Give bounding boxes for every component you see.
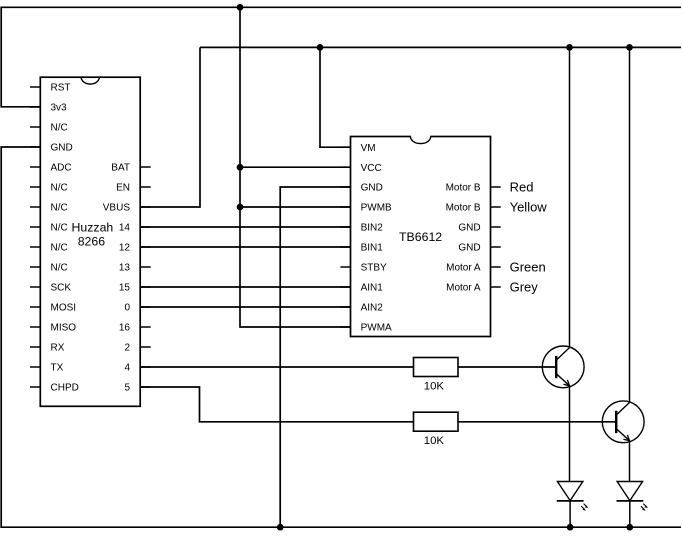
wire: R1 to Q1 base [458, 366, 556, 368]
wire: branch to U2 VCC pin [240, 166, 351, 168]
U2 top notch [411, 135, 430, 138]
svg-text:8266: 8266 [78, 234, 106, 248]
svg-text:Motor B: Motor B [446, 203, 481, 214]
junction dot: top rail / x=240 feed [237, 4, 244, 11]
U1 left pin stubs (RST,3v3,N/C,GND,ADC,N/C,N/C,N/C,N/C,N/C,SCK,MOSI,MISO,RX,TX,CHPD) [30, 87, 40, 387]
svg-text:15: 15 [119, 283, 131, 294]
LED D1 [557, 482, 589, 511]
svg-text:VCC: VCC [361, 163, 382, 174]
svg-text:GND: GND [361, 183, 383, 194]
svg-text:10K: 10K [424, 380, 445, 392]
junction dot: power rail / VM drop [317, 44, 324, 51]
wire: U1 pin 15 to U2 AIN1 [140, 286, 350, 288]
junction dot: ground rail / D2 cathode [626, 524, 633, 531]
svg-text:Yellow: Yellow [510, 200, 548, 215]
wire: U1 pin 0 to U2 AIN2 [140, 306, 350, 308]
svg-text:AIN2: AIN2 [361, 303, 384, 314]
wire: power rail down to U2 VM pin [320, 47, 351, 147]
transistor Q2 (NPN) [602, 401, 644, 443]
wire: branch to U2 PWMB pin [240, 206, 351, 208]
wire: R2 to Q2 base [458, 421, 616, 423]
U2 right pin labels [446, 183, 481, 294]
svg-text:RST: RST [51, 83, 71, 94]
svg-text:MOSI: MOSI [51, 303, 77, 314]
svg-text:MISO: MISO [51, 323, 77, 334]
svg-text:10K: 10K [424, 435, 445, 447]
U2 left pin stubs (VM,VCC,GND,PWMB,BIN2,BIN1,STBY,AIN1,AIN2,PWMA) [340, 147, 350, 327]
wire: U1 pin 5 down and over to resistor R2 [140, 387, 413, 422]
U2 right pin stubs (Motor B,Motor B,GND,GND,Motor A,Motor A) [491, 187, 501, 287]
svg-text:Motor B: Motor B [446, 183, 481, 194]
U1 top notch [81, 77, 99, 84]
svg-text:PWMA: PWMA [361, 323, 392, 334]
wire: vertical 3v3 feed at x=240 from top rail down to U2 PWMA pin [240, 7, 351, 327]
IC U2 TB6612 body [351, 137, 491, 337]
junction dot: x=240 feed / PWMB branch [237, 204, 244, 211]
wire: U1 pin 12 to U2 BIN1 [140, 246, 350, 248]
junction dot: ground rail / D1 cathode [567, 524, 574, 531]
svg-text:Motor A: Motor A [446, 283, 481, 294]
svg-text:RX: RX [51, 343, 65, 354]
svg-text:PWMB: PWMB [361, 203, 392, 214]
svg-text:4: 4 [124, 363, 130, 374]
U2 left pin labels [361, 143, 392, 334]
svg-text:16: 16 [119, 323, 131, 334]
wire: U1 pin 4 to resistor R1 [140, 366, 413, 368]
svg-text:N/C: N/C [51, 203, 68, 214]
wire: LED D2 cathode down to ground rail [629, 501, 631, 527]
svg-text:EN: EN [116, 183, 130, 194]
svg-text:BIN1: BIN1 [361, 243, 384, 254]
wire: LED D1 cathode down to ground rail [569, 501, 571, 527]
U1 right pin labels [103, 163, 131, 394]
svg-text:BAT: BAT [111, 163, 130, 174]
svg-text:Huzzah: Huzzah [72, 220, 114, 234]
svg-text:BIN2: BIN2 [361, 223, 384, 234]
junction dot: ground rail / U2 GND drop [277, 524, 284, 531]
junction dot: power rail / Q1 collector [566, 44, 573, 51]
svg-text:Green: Green [510, 259, 546, 274]
svg-text:2: 2 [124, 343, 130, 354]
wire: top 3v3 rail with branch down left edge to U1 3v3 pin [1, 7, 681, 107]
wire: power rail down to Q2 collector [629, 47, 631, 402]
svg-text:0: 0 [124, 303, 130, 314]
resistor R2 10K [414, 412, 459, 431]
wire: GND from U1 GND pin down left edge, along bottom ground rail [1, 147, 681, 527]
wire: U1 pin 14 to U2 BIN2 [140, 226, 350, 228]
junction dot: power rail / Q2 collector [626, 44, 633, 51]
svg-text:N/C: N/C [51, 123, 68, 134]
svg-text:N/C: N/C [51, 243, 68, 254]
U1 right pin stubs (BAT,EN,VBUS,14,12,13,15,0,16,2,4,5) [140, 167, 151, 387]
svg-text:Motor A: Motor A [446, 263, 481, 274]
svg-text:CHPD: CHPD [51, 383, 79, 394]
IC U1 Huzzah 8266 body [40, 77, 140, 406]
wire: power rail down to Q1 collector [569, 47, 571, 347]
svg-text:ADC: ADC [51, 163, 72, 174]
svg-text:13: 13 [119, 263, 131, 274]
resistor R1 10K [414, 358, 459, 377]
svg-text:N/C: N/C [51, 223, 68, 234]
svg-text:TB6612: TB6612 [399, 230, 442, 244]
svg-text:VBUS: VBUS [103, 203, 131, 214]
svg-text:GND: GND [458, 223, 480, 234]
wire: U2 GND pin down to ground rail [280, 187, 350, 527]
svg-text:SCK: SCK [51, 283, 72, 294]
svg-text:GND: GND [458, 243, 480, 254]
svg-text:TX: TX [51, 363, 64, 374]
junction dot: x=240 feed / VCC branch [237, 164, 244, 171]
svg-text:Red: Red [510, 179, 534, 194]
svg-text:14: 14 [119, 223, 131, 234]
svg-text:GND: GND [51, 143, 73, 154]
wire: Q1 emitter down to LED D1 anode [569, 386, 571, 482]
wire: second horizontal power rail at y=47 [200, 46, 681, 48]
svg-text:Grey: Grey [510, 279, 539, 294]
wire: U1 VBUS pin up to power rail [140, 47, 200, 207]
svg-text:5: 5 [124, 383, 130, 394]
U1 left pin labels [51, 83, 79, 394]
svg-text:VM: VM [361, 143, 376, 154]
svg-text:N/C: N/C [51, 263, 68, 274]
svg-text:AIN1: AIN1 [361, 283, 384, 294]
LED D2 [617, 482, 649, 511]
svg-text:12: 12 [119, 243, 131, 254]
svg-text:STBY: STBY [361, 263, 387, 274]
svg-text:3v3: 3v3 [51, 103, 68, 114]
transistor Q1 (NPN) [542, 346, 584, 388]
svg-text:N/C: N/C [51, 183, 68, 194]
wire: Q2 emitter down to LED D2 anode [629, 441, 631, 482]
